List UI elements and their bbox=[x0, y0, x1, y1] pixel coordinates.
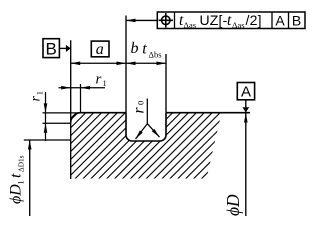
part outline: top surface right of slot bbox=[166, 112, 250, 114]
svg-text:1: 1 bbox=[103, 78, 107, 88]
part outline: slot bottom bbox=[132, 140, 160, 142]
label phi D rotated bbox=[223, 194, 243, 216]
datum A leader down from box bbox=[245, 100, 247, 113]
svg-text:Δbs: Δbs bbox=[149, 50, 162, 60]
svg-text:a: a bbox=[96, 41, 104, 58]
part outline: top-left corner radius r1 bbox=[71, 113, 81, 123]
svg-text:1: 1 bbox=[34, 91, 44, 95]
svg-text:/2]: /2] bbox=[246, 12, 262, 28]
svg-text:0: 0 bbox=[136, 101, 146, 105]
svg-text:B: B bbox=[46, 40, 57, 59]
part outline + extension line: left edge at x=70.7 bbox=[70, 40, 72, 179]
r0 leader with V arrows to slot corner radii bbox=[136, 99, 160, 140]
phi D1 extension line y=140 bbox=[24, 139, 71, 141]
hatching of section bbox=[0, 100, 296, 195]
datum B filled triangle bbox=[66, 45, 71, 52]
label phi D1 t_dD1s rotated bbox=[8, 155, 26, 204]
svg-text:t: t bbox=[8, 173, 25, 178]
svg-text:b: b bbox=[131, 40, 139, 57]
svg-text:UZ[-: UZ[- bbox=[200, 12, 228, 28]
extension line x=80.5 for r1 tangent bbox=[80, 84, 82, 113]
svg-text:Δas: Δas bbox=[184, 20, 197, 30]
datum A filled triangle on surface bbox=[243, 107, 250, 112]
position symbol bbox=[162, 16, 171, 25]
svg-text:r: r bbox=[29, 96, 44, 102]
extension line x=126 from leader down to part bbox=[125, 16, 127, 113]
r1 vertical: upper extension line y=112.9 bbox=[43, 112, 81, 114]
part outline: slot right wall and bottom corner radius r0 bbox=[160, 113, 166, 141]
r1 vertical: lower extension line y=123.2 bbox=[43, 122, 71, 124]
feature control frame bbox=[157, 12, 305, 29]
svg-text:B: B bbox=[292, 12, 301, 28]
dimension line a (y=63.3) with outward arrows bbox=[71, 62, 126, 64]
dimension line b (y=63.3) with outward arrows bbox=[126, 62, 166, 64]
datum B box bbox=[43, 39, 59, 58]
svg-text:t: t bbox=[142, 41, 147, 58]
extension line x=166 above slot right wall bbox=[165, 54, 167, 113]
svg-text:ΔD1s: ΔD1s bbox=[17, 155, 26, 172]
svg-text:1: 1 bbox=[17, 181, 26, 185]
dimension frame box a bbox=[91, 41, 109, 57]
phi D1 dimension line with up arrow bbox=[29, 140, 31, 216]
phi D dimension line with up arrow bbox=[245, 113, 247, 216]
r1 horizontal dimension line (y=87.7) arrows outside pointing in bbox=[59, 87, 106, 89]
label r0 rotated bbox=[131, 101, 148, 114]
svg-text:Δas: Δas bbox=[232, 20, 245, 30]
r1 vertical dimension line (x=45.5) arrows outside pointing in bbox=[45, 92, 47, 141]
datum A box bbox=[237, 83, 254, 100]
svg-text:ϕD: ϕD bbox=[223, 194, 243, 216]
label r1 rotated bbox=[29, 91, 45, 101]
part outline: slot left wall and bottom corner radius r0 bbox=[126, 113, 132, 141]
svg-text:r: r bbox=[96, 72, 102, 88]
svg-text:ϕD: ϕD bbox=[8, 184, 25, 204]
svg-text:A: A bbox=[275, 12, 285, 28]
datum B leader bbox=[59, 47, 66, 49]
svg-text:A: A bbox=[241, 84, 251, 101]
svg-text:r: r bbox=[131, 107, 148, 114]
part outline: top surface left of slot bbox=[81, 112, 127, 114]
FCF leader line with arrow at x=126 bbox=[126, 19, 157, 21]
